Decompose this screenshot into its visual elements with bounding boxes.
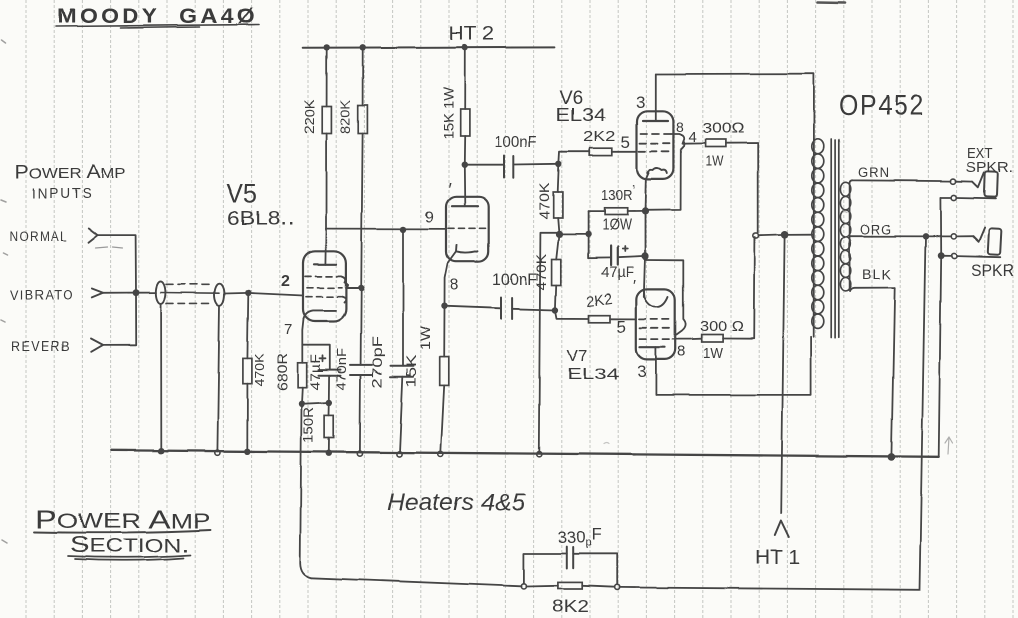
svg-text:BLK: BLK — [862, 267, 892, 282]
node HT2-820K junction — [360, 45, 366, 51]
wire A2 to 150R — [328, 403, 330, 415]
HT1 arrow — [775, 521, 789, 538]
svg-text:100nF: 100nF — [492, 271, 537, 289]
wire 820K to pin4 node — [361, 134, 362, 289]
svg-text:470K: 470K — [537, 183, 552, 220]
wire node Y to 470K lower — [556, 234, 559, 259]
wire GRN tap — [850, 180, 951, 182]
terminal NFB left — [521, 584, 526, 589]
node Y junction (grid leaks) — [555, 231, 562, 238]
underline SECTION — [68, 555, 190, 560]
terminal SPKR sleeve — [951, 253, 956, 258]
wire 270pF node drop — [402, 229, 404, 365]
wire screens to center tap — [759, 235, 814, 236]
tube V5 triode grid row — [448, 227, 486, 229]
terminal NFB right — [614, 585, 619, 590]
svg-text:1W: 1W — [417, 325, 433, 350]
tube V5 triode cathode lead — [445, 252, 457, 306]
wire grid node to 470K upper — [558, 164, 559, 192]
svg-text:HT 1: HT 1 — [755, 547, 800, 569]
resistor 300R (V6) body — [705, 140, 725, 148]
input arrow VIBRATO — [92, 289, 103, 298]
svg-text:7: 7 — [284, 321, 292, 338]
wire cathode node to 100nF lower — [445, 306, 501, 308]
tube V6 anode lead — [655, 74, 657, 121]
svg-text:150R: 150R — [301, 407, 316, 443]
svg-text:3: 3 — [636, 93, 645, 112]
svg-text:100nF: 100nF — [494, 134, 537, 151]
node SPKR sleeve junction — [938, 252, 945, 259]
wire cable core — [161, 292, 220, 295]
svg-text:Heaters 4&5: Heaters 4&5 — [387, 489, 526, 516]
resistor 130R body — [605, 208, 628, 215]
resistor 820K body — [358, 105, 367, 134]
node bias-net left junction — [585, 231, 591, 237]
svg-text:V5: V5 — [226, 179, 257, 209]
node A junction (V5 cathode bias) — [298, 401, 304, 407]
wire ORG to SPKR jack — [956, 235, 973, 237]
SPKR jack tip contact — [973, 228, 985, 242]
svg-text:820K: 820K — [338, 100, 353, 134]
wire ORG tap — [850, 235, 952, 237]
resistor 15K 1W body — [460, 109, 469, 136]
svg-text:REVERB: REVERB — [11, 339, 71, 354]
wire V7 pin8 drop — [645, 260, 686, 335]
wire 2K2 to V7 pin5 — [611, 318, 637, 320]
wire HT2 to 15K — [464, 48, 466, 109]
wire node A down run — [300, 404, 311, 578]
faint arrow artifact — [945, 437, 953, 454]
wire 8K2 to NFB right — [582, 586, 614, 587]
wire EXT sleeve — [941, 197, 996, 200]
wire grid node to 2K2 — [559, 152, 590, 164]
tube V6 grid rows — [639, 134, 672, 152]
node HT1 junction — [781, 231, 789, 239]
tube V5 pentode screen squiggle — [341, 276, 361, 302]
terminal EXT sleeve — [952, 195, 957, 200]
wire grid junction to 470K input — [246, 293, 249, 359]
svg-text:EL34: EL34 — [567, 366, 619, 383]
resistor 220K body — [322, 107, 331, 134]
transformer primary spine — [813, 139, 815, 337]
svg-text:270pF: 270pF — [369, 336, 385, 388]
node HT2-220K junction — [324, 45, 330, 51]
capacitor 47uF cathode plates — [319, 370, 341, 376]
svg-text:300 Ω: 300 Ω — [700, 319, 744, 335]
svg-text:2K2: 2K2 — [583, 128, 616, 145]
wire REVERB to bus — [103, 293, 136, 346]
svg-text:470nF: 470nF — [335, 348, 349, 390]
faint smudge 1 — [604, 443, 609, 444]
faint smudge 2 — [843, 210, 847, 212]
tube V5 triode envelope — [446, 196, 489, 261]
polarity plus 47uF cathode — [320, 355, 326, 361]
svg-text:47µF: 47µF — [601, 264, 634, 281]
tube V7 anode plate — [640, 346, 665, 348]
wire 680R to node A — [301, 388, 304, 404]
wire anode node to coupling cap — [464, 164, 504, 166]
svg-text:EL34: EL34 — [556, 105, 606, 125]
tube V5 pentode envelope — [303, 251, 346, 321]
HT2 rail wire — [303, 46, 555, 49]
tube V5 triode cathode — [456, 245, 478, 253]
resistor 2K2 (V7) body — [589, 315, 611, 322]
tube V5 triode anode lead — [463, 165, 466, 206]
wire V7 anode to primary bottom — [656, 337, 811, 395]
svg-text:470K: 470K — [252, 353, 267, 386]
wire 47uF to node A2 — [328, 375, 330, 402]
svg-text:1ØW: 1ØW — [602, 217, 632, 234]
tube V7 anode lead — [655, 347, 657, 395]
tube V5 triode anode plate — [452, 205, 478, 207]
svg-text:GRN: GRN — [858, 165, 890, 180]
resistor 470K (input) body — [243, 358, 252, 383]
tube V7 screen bracket — [673, 338, 702, 340]
svg-text:15K 1W: 15K 1W — [441, 87, 456, 139]
node HT2-15K junction — [462, 44, 468, 50]
capacitor 330pF plates — [567, 547, 573, 569]
svg-text:130R: 130R — [601, 188, 632, 204]
svg-text:300Ω: 300Ω — [702, 120, 744, 137]
capacitor 100nF lower plates — [501, 298, 512, 320]
polarity plus 47uF bias — [622, 247, 627, 252]
node V6 grid-leak junction — [556, 161, 562, 167]
svg-text:680R: 680R — [275, 353, 290, 391]
wire 100nF lower to V7 grid node — [512, 309, 556, 310]
wire 300R V7 to HT1 tap — [723, 238, 755, 339]
wire 270pF to ground — [400, 377, 403, 453]
wire NORMAL to bus — [98, 235, 137, 293]
svg-text:1W: 1W — [703, 346, 723, 362]
resistor 2K2 (V6) body — [590, 148, 613, 155]
svg-text:9: 9 — [425, 209, 434, 226]
node 150R ground junction — [326, 450, 332, 456]
svg-text:NORMAL: NORMAL — [9, 229, 68, 244]
wire shield right drop — [217, 305, 219, 451]
tube V6 screen bracket — [671, 134, 705, 144]
node shield left ground — [158, 448, 164, 454]
wire cathode column — [644, 211, 646, 256]
wire V7 grid node to 2K2 — [555, 310, 589, 319]
ground rail — [112, 450, 939, 457]
svg-text:HT 2: HT 2 — [449, 24, 494, 45]
svg-text:SPKR: SPKR — [971, 262, 1014, 280]
shielded cable right ellipse — [215, 284, 225, 306]
terminal ground drop — [536, 452, 541, 457]
node cable-grid junction — [245, 290, 251, 296]
svg-text:VIBRATO: VIBRATO — [10, 288, 74, 303]
faint dashes under NORMAL — [96, 247, 123, 248]
tube V6 cathode lead — [645, 172, 649, 211]
svg-text:15K: 15K — [403, 354, 419, 388]
node BLK-ground junction — [888, 453, 896, 461]
svg-text:5: 5 — [621, 133, 630, 152]
EXT jack body — [984, 171, 997, 196]
svg-text:47µF: 47µF — [307, 354, 323, 390]
svg-text:ORG: ORG — [860, 222, 892, 237]
terminal 470nF ground — [357, 451, 362, 456]
capacitor 47uF bias plates — [611, 246, 618, 266]
svg-text:8: 8 — [450, 277, 459, 294]
wire 130R to cathode node — [627, 210, 645, 212]
wire jack sleeve bus — [940, 198, 942, 256]
tube V7 cathode — [645, 297, 669, 307]
tube V5 pentode cathode lead — [302, 319, 303, 363]
wire BLK to ground — [891, 288, 894, 457]
svg-text:V7: V7 — [567, 346, 588, 365]
terminal SPKR tip — [951, 234, 956, 239]
wire 15K to ground — [441, 385, 444, 452]
wire bottom run to NFB network — [312, 578, 522, 587]
svg-text:′: ′ — [633, 278, 636, 295]
underline POWER AMP — [34, 530, 211, 533]
left edge scan marks — [1, 40, 7, 543]
tube V5 pentode anode plate — [314, 263, 336, 265]
transformer core — [831, 140, 839, 338]
node V7 cathode junction — [641, 253, 648, 260]
tube V5 pentode cathode — [304, 310, 337, 318]
terminal GRN — [951, 179, 956, 184]
svg-text:6BL8‥: 6BL8‥ — [227, 209, 295, 230]
wire 47uF to cathode column — [617, 256, 645, 257]
wire HT2 to 820K — [362, 48, 364, 105]
input arrow NORMAL — [88, 228, 97, 242]
svg-text:ʼ: ʼ — [632, 183, 635, 200]
wire bias net left vertical — [588, 212, 611, 259]
wire BLK tap — [850, 288, 895, 291]
node A2 junction — [326, 399, 332, 405]
svg-text:2: 2 — [281, 273, 290, 290]
wire junction to cable — [136, 292, 156, 294]
wire cathode node to 15K — [443, 306, 445, 357]
tube V5 pentode anode lead — [325, 229, 328, 265]
node 470K ground junction — [244, 448, 250, 454]
tube V6 anode plate — [643, 120, 668, 122]
svg-text:3: 3 — [637, 362, 646, 381]
wire node A to A2 — [302, 403, 330, 404]
wire NFB left to 8K2 — [526, 585, 558, 588]
resistor 470K (V7 grid) body — [552, 260, 561, 286]
resistor 470K (V6 grid) body — [553, 192, 562, 218]
shielded cable dashed shield — [166, 284, 214, 303]
node triode cathode junction — [441, 303, 447, 309]
svg-text:2K2: 2K2 — [585, 290, 613, 310]
transformer primary winding — [812, 139, 824, 329]
wire cathode to 47uF top — [302, 345, 330, 370]
tube V7 grid rows — [640, 319, 674, 339]
scan mark top right corner — [818, 1, 845, 4]
wire 15K to triode anode node — [463, 136, 465, 165]
wire cable to grid junction — [225, 292, 249, 295]
wire VIBRATO to junction — [103, 292, 136, 294]
tube V6 envelope — [637, 111, 673, 179]
wire cathode node to V7 cathode — [644, 256, 645, 296]
node V6 cathode junction — [641, 208, 648, 215]
resistor 150R body — [325, 415, 334, 438]
wire GRN to EXT jack — [956, 180, 972, 182]
svg-text:8: 8 — [676, 119, 684, 135]
wire pin4 node to 470nF — [360, 288, 363, 365]
terminal 270pF ground — [397, 451, 402, 456]
node pin4 junction — [358, 285, 364, 291]
wire 2K2 to V6 pin5 — [612, 151, 637, 153]
tube V7 envelope — [636, 289, 675, 360]
svg-text:INPUTS: INPUTS — [32, 185, 93, 202]
terminal screen join — [753, 233, 758, 238]
wire V6 anode to primary top — [656, 74, 814, 140]
capacitor 100nF upper plates — [504, 156, 513, 178]
input arrow REVERB — [91, 339, 103, 352]
wire V6 pin8 drop — [646, 141, 684, 210]
transformer secondary spine — [849, 183, 851, 292]
svg-text:8: 8 — [677, 343, 685, 360]
wire 470K lower to V7 grid node — [554, 286, 557, 311]
terminal shield right ground — [215, 450, 220, 455]
wire 470K upper to node Y — [558, 218, 559, 234]
node V7 grid junction — [552, 307, 558, 313]
svg-text:220K: 220K — [302, 100, 317, 134]
wire node Y to ground — [539, 233, 559, 453]
title underline — [56, 25, 259, 29]
wire bias left to 130R — [588, 211, 605, 213]
svg-text:POWER AMP: POWER AMP — [15, 162, 126, 183]
transformer secondary winding — [840, 182, 850, 291]
tube V6 cathode — [648, 169, 667, 175]
wire 470K input to ground — [246, 384, 248, 451]
wire 470nF to ground — [359, 375, 362, 453]
terminal 15K ground — [438, 451, 443, 456]
wire 220K to anode node — [326, 134, 328, 229]
wire 330pF bypass loop — [524, 554, 617, 585]
node input bus junction — [133, 289, 140, 296]
wire 300R to HT1 tap — [725, 143, 757, 233]
svg-text:1W: 1W — [705, 154, 723, 170]
wire shield left drop — [160, 304, 162, 451]
node NFB takeoff junction — [922, 233, 928, 239]
tube V5 pentode grid rows — [305, 276, 342, 296]
node 270pF junction — [400, 226, 406, 232]
wire NFB to ORG tap — [619, 236, 925, 590]
wire sleeve bus to ground rail — [939, 256, 942, 457]
shielded cable left ellipse — [156, 282, 166, 304]
wire 150R to ground — [328, 438, 330, 453]
resistor 680R body — [298, 363, 307, 388]
wire HT1 stem — [781, 235, 784, 513]
svg-text:8K2: 8K2 — [552, 596, 589, 616]
wire node Y to bias net — [559, 233, 588, 235]
wire grid junction to V5 pin2 — [248, 293, 303, 296]
capacitor 470nF plates — [350, 365, 372, 375]
resistor 8K2 body — [558, 582, 582, 589]
wire HT2 to 220K — [326, 48, 328, 107]
svg-text:OP452: OP452 — [839, 90, 925, 122]
node triode anode junction — [461, 162, 467, 168]
capacitor 270pF plates — [391, 366, 414, 377]
wire anode node to triode grid — [327, 228, 447, 230]
wire SPKR sleeve — [945, 256, 1001, 257]
wire cap to V6 grid node — [513, 163, 559, 166]
svg-text:SPKR.: SPKR. — [966, 159, 1013, 176]
svg-text:5: 5 — [617, 317, 626, 336]
svg-text:4: 4 — [688, 129, 696, 146]
tube V7 cathode lead — [643, 289, 646, 297]
SPKR jack body — [988, 228, 1002, 255]
EXT jack tip contact — [973, 173, 985, 188]
resistor 15K 1W (cathode) body — [440, 357, 449, 385]
resistor 300R (V7) body — [702, 335, 723, 343]
